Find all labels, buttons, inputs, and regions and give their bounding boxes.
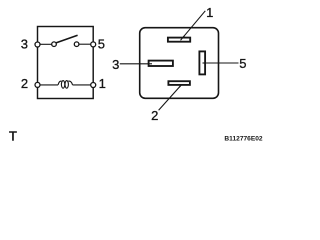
svg-text:T: T [9, 129, 17, 144]
svg-text:1: 1 [99, 76, 106, 91]
svg-text:2: 2 [21, 76, 28, 91]
svg-text:B112776E02: B112776E02 [224, 135, 262, 142]
svg-text:3: 3 [112, 57, 119, 72]
svg-text:5: 5 [98, 37, 105, 52]
svg-text:5: 5 [239, 56, 246, 71]
svg-text:3: 3 [21, 37, 28, 52]
svg-text:2: 2 [151, 108, 158, 123]
svg-text:1: 1 [206, 5, 213, 20]
